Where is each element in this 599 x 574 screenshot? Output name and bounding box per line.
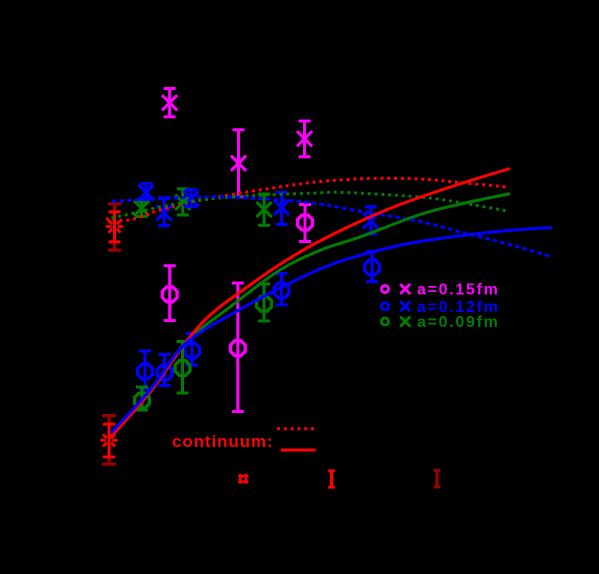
red I-shaped error bar marker (experiment)	[328, 471, 335, 487]
svg-text:continuum:: continuum:	[172, 432, 274, 451]
blue cross point 1 (a=0.12fm)	[138, 184, 153, 201]
green solid continuum-fit curve	[111, 194, 511, 437]
magenta circle point 1 (a=0.15fm)	[162, 266, 177, 321]
blue circle point 1 (a=0.12fm)	[138, 351, 153, 389]
lower red star data point (physical) with error bar	[100, 424, 117, 457]
blue cross point 3 (a=0.12fm)	[184, 190, 199, 207]
blue cross point 2 (a=0.12fm)	[156, 198, 171, 226]
blue circle point 5 (a=0.12fm)	[365, 252, 380, 282]
legend red dotted line sample	[277, 427, 316, 430]
green circle point 1 (a=0.09fm)	[135, 387, 150, 410]
magenta cross point 1 (a=0.15fm)	[162, 89, 177, 117]
magenta circle point 2 (a=0.15fm)	[230, 283, 245, 412]
svg-text:a=0.15fm: a=0.15fm	[417, 282, 500, 299]
blue cross point 5 (a=0.12fm)	[363, 207, 378, 234]
legend row a=0.09fm (green)	[381, 314, 499, 331]
blue circle point 4 (a=0.12fm)	[274, 274, 289, 305]
blue circle point 3 (a=0.12fm)	[185, 334, 200, 366]
magenta circle point 3 (a=0.15fm)	[298, 205, 313, 242]
green circle point 3 (a=0.09fm)	[257, 284, 272, 321]
blue cross point 4 (a=0.12fm)	[274, 193, 289, 225]
red solid continuum-fit curve	[110, 169, 510, 439]
upper red star data point (physical) with error bar	[106, 212, 123, 242]
red square-hash marker (experimental point)	[238, 474, 248, 484]
red dotted finite-a fit curve	[106, 178, 506, 220]
svg-text:a=0.09fm: a=0.09fm	[417, 314, 500, 331]
blue dotted finite-a fit curve	[112, 197, 551, 257]
magenta cross point 2 (a=0.15fm)	[231, 130, 246, 197]
green cross point 2 (a=0.09fm)	[175, 189, 190, 215]
blue circle point 2 (a=0.12fm)	[157, 355, 172, 386]
legend row a=0.12fm (blue)	[381, 299, 499, 316]
green dotted finite-a fit curve	[112, 192, 508, 218]
legend red solid line sample	[281, 449, 316, 452]
maroon outer error bar of upper red star point	[108, 204, 121, 250]
legend row a=0.15fm (magenta)	[381, 282, 499, 299]
green circle point 2 (a=0.09fm)	[175, 342, 190, 394]
blue solid continuum-fit curve	[111, 228, 552, 434]
green cross point 1 (a=0.09fm)	[134, 201, 149, 217]
maroon I-shaped error bar marker (experiment)	[434, 471, 441, 488]
maroon outer error bar of lower red star point	[102, 416, 116, 465]
green cross point 3 (a=0.09fm)	[257, 194, 272, 225]
magenta cross point 3 (a=0.15fm)	[297, 121, 312, 157]
